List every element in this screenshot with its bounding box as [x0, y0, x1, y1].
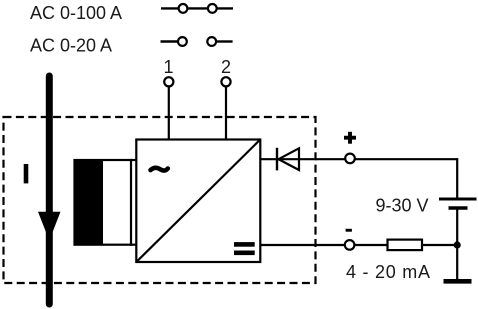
svg-text:AC 0-100 A: AC 0-100 A	[30, 3, 122, 23]
svg-text:AC 0-20 A: AC 0-20 A	[30, 36, 112, 56]
svg-text:9-30 V: 9-30 V	[376, 195, 429, 215]
svg-text:2: 2	[221, 57, 231, 77]
svg-text:1: 1	[163, 57, 173, 77]
svg-text:4 - 20 mA: 4 - 20 mA	[346, 262, 431, 282]
